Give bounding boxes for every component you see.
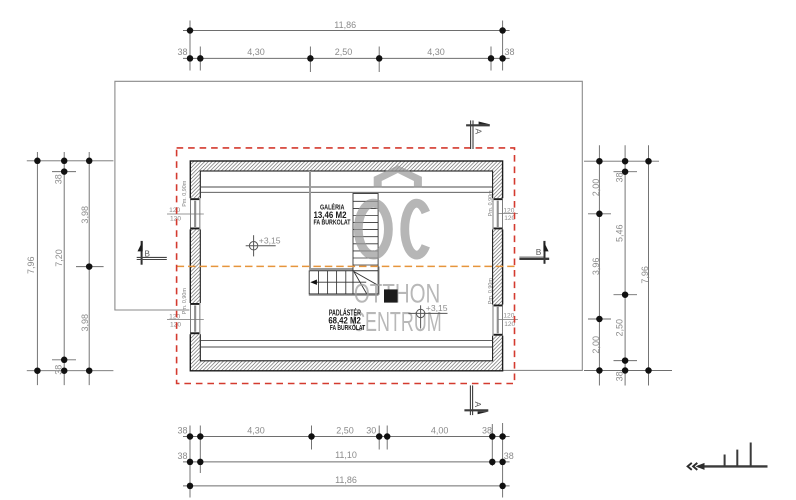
knee wall line top 1 [200, 186, 492, 188]
svg-text:38: 38 [177, 47, 187, 57]
svg-text:38: 38 [177, 451, 187, 461]
svg-text:4,00: 4,00 [431, 426, 449, 436]
dim line 38/11,10/38 bottom [183, 461, 510, 463]
wall hatch band [190, 161, 502, 371]
dim line 7,96 left [36, 152, 38, 385]
dim line 38/4,30/2,50/4,30/38 top [183, 57, 510, 59]
knee wall line bottom 1 [200, 340, 492, 342]
room label GALERIA [314, 203, 352, 227]
svg-text:FA BURKOLAT: FA BURKOLAT [330, 323, 366, 332]
window W2 left lower opening [189, 303, 201, 334]
svg-text:2,00: 2,00 [591, 179, 601, 197]
stair treads lower flight [319, 271, 346, 294]
ridge line (orange dashed) [177, 265, 515, 267]
svg-text:+3,15: +3,15 [426, 303, 448, 313]
left chain labels (rotated) [26, 174, 90, 375]
extension line y=370.7 left [27, 370, 114, 372]
extension line x=502.6 bottom [502, 423, 504, 498]
stair treads upper flight [353, 201, 378, 265]
svg-text:38: 38 [54, 365, 64, 375]
dim line 38/4,30/2,50/30/4,00/38 bottom [183, 436, 510, 438]
top chain dots [187, 27, 506, 61]
svg-text:4,30: 4,30 [427, 47, 445, 57]
svg-text:120: 120 [170, 321, 181, 328]
window label 120/120 W1 [169, 207, 181, 223]
tick y=319 right [588, 318, 611, 320]
window label 120/120 W4 [503, 312, 515, 328]
extension line x=492.3 bottom [491, 424, 493, 466]
stair winder corner [353, 271, 378, 294]
svg-text:2,50: 2,50 [614, 319, 624, 337]
svg-text:A: A [473, 129, 483, 135]
svg-text:B: B [536, 247, 542, 257]
tick y=294.7 right [614, 294, 638, 296]
knee wall line bottom 2 [200, 346, 492, 348]
level marker M2 [408, 305, 447, 328]
svg-text:3,98: 3,98 [80, 206, 90, 224]
stair lower flight [309, 271, 353, 294]
tick y=359.8 left [52, 359, 76, 361]
window label 120/120 W3 [503, 207, 515, 222]
window label 120/120 W2 [169, 313, 181, 328]
extension line left x=190 [189, 21, 191, 71]
room label PADLASTER [328, 309, 365, 332]
svg-text:Pm. 0,90m: Pm. 0,90m [182, 288, 188, 315]
left chain dots [34, 158, 92, 374]
right dimension chains [584, 145, 672, 385]
bottom chain labels [177, 426, 513, 486]
tick x=311.5 bottom [311, 426, 313, 450]
window W4 right lower opening [492, 305, 504, 336]
svg-text:120: 120 [503, 312, 514, 319]
tick y=360.6 right [614, 360, 638, 362]
svg-text:38: 38 [615, 371, 625, 381]
window W1 left upper opening [189, 198, 201, 229]
dim line 11,86 bottom [183, 485, 510, 487]
section marker A bottom [464, 385, 488, 415]
svg-text:2,50: 2,50 [336, 426, 354, 436]
svg-text:7,96: 7,96 [640, 266, 650, 284]
svg-text:Pm. 0,90m: Pm. 0,90m [488, 278, 494, 305]
svg-text:120: 120 [170, 216, 181, 223]
bottom chain dots [187, 433, 506, 489]
dim line 3,98/3,98 left [88, 152, 90, 385]
section marker B right [519, 241, 549, 264]
dim line 7,96 right [648, 145, 650, 385]
level marker M1 [246, 235, 276, 256]
tick x=491 [490, 47, 492, 71]
window W3 right upper opening [492, 198, 504, 229]
ground-floor outline polygon (gray) [115, 81, 582, 370]
wall inner outline [200, 171, 492, 361]
svg-text:11,86: 11,86 [334, 20, 356, 30]
tick ridge y=266.6 left [76, 266, 104, 268]
tick x=200.3 [199, 47, 201, 71]
tick y=171.6 left [52, 171, 76, 173]
svg-text:4,30: 4,30 [247, 426, 265, 436]
right chain dots [596, 158, 652, 374]
svg-text:38: 38 [504, 47, 514, 57]
svg-text:38: 38 [615, 172, 625, 182]
knee wall line top 2 [200, 191, 492, 193]
watermark group [352, 165, 442, 337]
section marker B left [137, 241, 167, 265]
extension line right x=502.6 [502, 21, 504, 71]
watermark letter O [358, 203, 388, 255]
extension line x=200.3 bottom [199, 426, 201, 474]
dim line 38/7,20/38 left [63, 152, 65, 385]
dim line 38/5,46/2,50/38 right [624, 145, 626, 385]
svg-text:38: 38 [482, 426, 492, 436]
svg-text:30: 30 [366, 426, 376, 436]
gallery edge vertical (gray slab line) [309, 171, 311, 270]
svg-text:2,00: 2,00 [591, 336, 601, 354]
svg-text:+3,15: +3,15 [259, 236, 281, 246]
svg-text:5,46: 5,46 [614, 224, 624, 242]
extension line y=161.2 right [584, 160, 659, 162]
tick x=310.4 [309, 47, 311, 73]
tick x=379.2 bottom [378, 426, 380, 450]
svg-text:120: 120 [169, 207, 180, 214]
tick y=213.8 right [588, 213, 611, 215]
gallery slab edge stair bottom [309, 294, 379, 296]
stair direction arrow [310, 280, 317, 285]
left dimension chains [27, 152, 114, 385]
svg-text:38: 38 [54, 174, 64, 184]
extension line y=370.5 right [584, 370, 672, 372]
watermark letter C [405, 203, 426, 255]
svg-text:B: B [144, 248, 150, 258]
svg-text:38: 38 [177, 426, 187, 436]
extension line y=160.8 left [27, 160, 114, 162]
svg-text:11,10: 11,10 [335, 450, 357, 460]
dim line 11,86 top [183, 30, 510, 32]
svg-text:A: A [473, 402, 483, 408]
watermark roof icon [374, 165, 422, 188]
roof overhang boundary (red dashed rect) [177, 148, 515, 384]
stair walking line [312, 281, 367, 283]
svg-text:2,50: 2,50 [335, 47, 353, 57]
extension line x=190 bottom [189, 426, 191, 498]
svg-text:3,96: 3,96 [591, 258, 601, 276]
gallery slab edge stair right lower [378, 267, 380, 295]
svg-text:38: 38 [504, 451, 514, 461]
svg-text:7,96: 7,96 [26, 256, 36, 274]
svg-text:3,98: 3,98 [80, 314, 90, 332]
right chain labels (rotated) [591, 172, 650, 381]
stair upper flight column [353, 194, 378, 271]
tick x=387.2 bottom [386, 426, 388, 450]
tick y=171.7 right [614, 171, 638, 173]
top dimension chain [183, 21, 510, 73]
svg-text:7,20: 7,20 [54, 249, 64, 267]
tick x=379.2 [378, 47, 380, 73]
svg-text:11,86: 11,86 [335, 475, 357, 485]
section marker A top [466, 120, 490, 149]
svg-text:Pm. 0,90m: Pm. 0,90m [182, 180, 188, 207]
gallery slab edge horizontal upper [310, 268, 353, 270]
wall outer outline [190, 161, 502, 371]
top chain labels [177, 20, 514, 57]
chimney block [384, 289, 398, 302]
bottom dimension chains [183, 423, 510, 498]
footer scale icon [688, 443, 768, 470]
svg-text:4,30: 4,30 [247, 47, 265, 57]
svg-text:FA BURKOLAT: FA BURKOLAT [314, 219, 352, 226]
dim line 2,00/3,96/2,00 right [598, 145, 600, 385]
svg-text:Pm. 0,90m: Pm. 0,90m [488, 190, 494, 217]
